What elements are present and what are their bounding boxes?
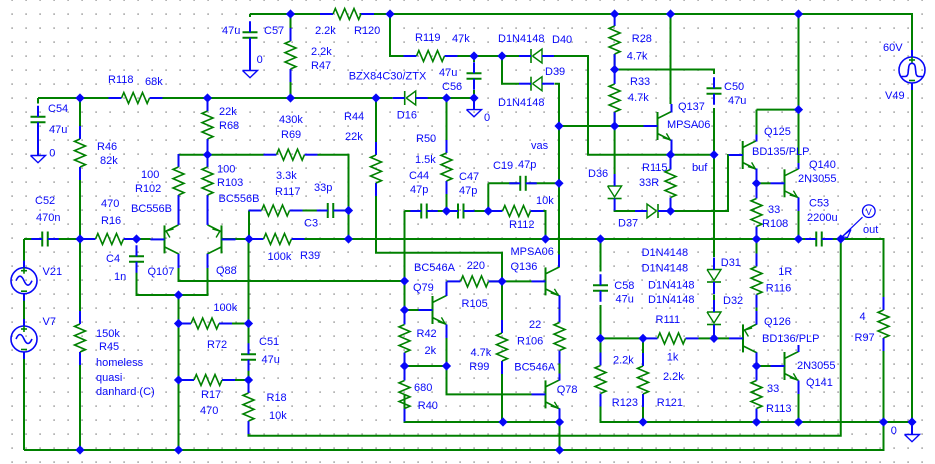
svg-text:Q88: Q88 [216,265,237,277]
transistor Q79 [413,262,456,338]
wire [292,238,817,240]
capacitor C4 [106,245,144,283]
wire [137,238,151,240]
svg-text:470: 470 [200,405,218,417]
resistor R117 [249,170,303,216]
junction [597,335,604,342]
svg-text:R116: R116 [766,282,791,294]
wire [614,126,616,174]
junction [386,10,393,17]
wire [37,98,39,104]
resistor R123 [595,353,638,410]
junction [287,10,294,17]
svg-text:2N3055: 2N3055 [797,360,836,372]
svg-text:D1N4148: D1N4148 [648,280,694,292]
wire [614,112,616,126]
transistor Q88 [208,206,237,277]
resistor R42 [399,312,437,366]
svg-text:V49: V49 [885,90,905,102]
wire [559,309,561,323]
resistor R99 [469,320,507,374]
svg-text:R105: R105 [462,298,488,310]
resistor R111 [645,314,699,364]
svg-text:R69: R69 [281,129,301,141]
svg-text:2.2k: 2.2k [311,46,332,58]
resistor R69 [264,114,318,160]
wire [466,210,488,212]
svg-text:4.7k: 4.7k [628,92,649,104]
wire [404,366,406,381]
svg-text:R97: R97 [855,332,875,344]
junction [639,418,646,425]
svg-text:homeless: homeless [96,357,144,369]
wire [124,238,151,240]
wire [457,55,531,57]
junction [611,10,618,17]
svg-text:R119: R119 [415,32,440,44]
junction [175,291,182,298]
capacitor C54 [31,103,69,136]
resistor R103 [202,154,259,208]
wire [756,227,758,240]
svg-text:C54: C54 [48,103,68,115]
wire [473,56,475,62]
zener diode D16 [349,71,428,122]
wire [446,194,448,211]
wire [222,238,264,240]
capacitor C44 [409,170,438,219]
svg-text:4.7k: 4.7k [627,50,648,62]
junction [372,94,379,101]
svg-text:47p: 47p [410,184,428,196]
svg-text:C51: C51 [259,336,279,348]
wire [405,395,560,423]
wire [757,182,771,184]
ground 0 (C54) [31,124,56,163]
wire [714,337,729,338]
svg-text:47p: 47p [459,185,477,197]
junction [133,235,140,242]
wire [601,337,645,339]
svg-text:C52: C52 [35,195,55,207]
wire [429,210,456,212]
wire [756,239,758,254]
svg-text:22: 22 [529,319,541,331]
svg-text:vas: vas [531,140,549,152]
junction [597,235,604,242]
svg-text:R102: R102 [135,183,161,195]
resistor R106 [517,310,565,364]
resistor R50 [415,133,452,194]
wire [179,154,264,156]
diode D31 [707,257,741,294]
junction [555,180,562,187]
junction [611,122,618,129]
capacitor C52 [31,195,60,247]
wire [302,210,327,212]
svg-text:R118: R118 [108,74,133,86]
junction [401,277,408,284]
wire [376,196,502,281]
svg-text:0: 0 [891,425,897,437]
svg-text:Q107: Q107 [148,266,175,278]
junction [556,418,563,425]
svg-text:1n: 1n [114,271,126,283]
junction [470,52,477,59]
svg-text:BD135/PLP: BD135/PLP [752,146,809,158]
junction [795,235,802,242]
junction [639,335,646,342]
diode D39 [498,66,565,109]
svg-text:D16: D16 [397,110,417,122]
wire [756,183,758,185]
wire [336,210,349,212]
wire [615,70,714,75]
svg-text:430k: 430k [279,114,303,126]
capacitor C19 [493,159,537,191]
ground 0 (C56) [467,98,491,124]
wire [360,14,913,51]
wire [487,183,489,211]
ground 0 (C57) [243,41,263,78]
svg-text:D32: D32 [723,295,743,307]
ground 0 (main) [891,424,920,442]
junction [245,376,252,383]
wire [51,238,96,240]
junction [443,207,450,214]
resistor R97 [855,297,890,351]
wire [543,211,546,239]
wire [558,126,560,255]
wire [79,180,81,239]
resistor R72 [178,302,238,351]
svg-text:33p: 33p [314,182,332,194]
junction [401,362,408,369]
wire [318,155,349,239]
diode D32 [707,295,743,337]
svg-text:C47: C47 [459,171,479,183]
wire [232,323,249,325]
svg-text:D1N4148: D1N4148 [498,97,544,109]
svg-text:4: 4 [860,311,866,323]
svg-text:R121: R121 [657,397,683,409]
wire [248,239,250,351]
transistor Q78 [514,362,577,423]
resistor R17 [181,375,235,418]
resistor R39 [251,234,321,264]
wire [405,210,419,212]
wire [179,323,192,325]
svg-text:Q78: Q78 [557,384,578,396]
wire [405,365,447,367]
transistor Q107 [148,206,179,278]
transistor Q126 [729,311,819,366]
wire [79,98,81,126]
labels D1N4148 group [642,247,695,306]
svg-text:C19: C19 [493,160,513,172]
junction [753,362,760,369]
junction [555,122,562,129]
wire [798,211,800,239]
node vas [531,140,549,152]
svg-text:out: out [863,224,878,236]
svg-text:R17: R17 [201,389,221,401]
svg-text:Q137: Q137 [678,101,705,113]
svg-text:R115: R115 [642,162,667,174]
resistor R102 [131,154,184,215]
wire [529,182,560,184]
junction [443,362,450,369]
resistor R47 [285,28,332,82]
wire [375,98,377,142]
svg-text:Q141: Q141 [806,377,833,389]
capacitor C51 [241,336,280,371]
wire [559,125,644,127]
wire [137,265,179,296]
svg-text:4.7k: 4.7k [471,347,492,359]
wire [822,239,884,297]
wire [179,254,405,282]
svg-text:33: 33 [768,204,780,216]
svg-text:R45: R45 [99,341,119,353]
svg-text:22k: 22k [219,106,237,118]
wire [23,294,25,327]
wire [150,97,393,99]
junction [76,94,83,101]
resistor R119 [404,32,471,62]
wire [79,365,81,450]
svg-text:BC556B: BC556B [219,193,260,205]
svg-text:82k: 82k [100,155,118,167]
svg-text:47k: 47k [452,33,470,45]
voltage source V21 [11,261,62,301]
svg-text:D39: D39 [545,66,565,78]
svg-text:R46: R46 [97,141,117,153]
wire [248,211,250,240]
svg-text:Q126: Q126 [764,316,791,328]
wire [390,14,404,56]
junction [753,180,760,187]
transistor Q125 [729,126,810,183]
junction [556,446,563,453]
wire [416,97,474,99]
resistor R18 [243,380,287,434]
wire [756,409,758,423]
svg-text:100k: 100k [268,251,292,263]
svg-text:3.3k: 3.3k [276,170,297,182]
svg-text:R103: R103 [217,177,243,189]
wire [713,108,715,155]
junction [287,94,294,101]
svg-text:BD136/PLP: BD136/PLP [762,333,819,345]
svg-text:100k: 100k [213,302,237,314]
wire [614,54,616,70]
wire [756,110,758,135]
wire [713,295,715,301]
svg-text:R33: R33 [630,76,650,88]
svg-text:C4: C4 [106,253,120,265]
wire [670,14,672,104]
junction [753,418,760,425]
wire [179,254,208,296]
svg-text:BC546A: BC546A [414,262,456,274]
svg-text:R99: R99 [469,361,489,373]
wire [543,56,715,155]
wire [447,366,532,394]
wire [911,90,913,423]
junction [204,151,211,158]
out probe [842,205,879,238]
svg-text:quasi: quasi [96,372,122,384]
svg-text:buf: buf [692,162,708,174]
junction [470,94,477,101]
svg-text:R47: R47 [311,60,331,72]
svg-text:C53: C53 [809,198,829,210]
svg-text:R50: R50 [416,133,436,145]
svg-text:D1N4148: D1N4148 [642,247,688,259]
wire [600,338,602,352]
junction [204,94,211,101]
svg-text:R112: R112 [509,219,534,231]
wire [501,281,503,320]
resistor R45 [75,311,121,365]
wire [502,56,519,84]
junction [795,10,802,17]
svg-text:D1N4148: D1N4148 [498,33,544,45]
wire [178,154,180,156]
svg-text:R44: R44 [344,111,364,123]
wire [404,211,406,325]
junction [611,66,618,73]
diode D37 [618,204,670,230]
transistor Q141 [771,345,836,394]
junction [710,335,717,342]
capacitor C58 [593,274,634,305]
wire [601,407,644,423]
junction [345,235,352,242]
svg-text:1R: 1R [778,266,792,278]
capacitor C57 [222,21,284,49]
junction [245,320,252,327]
wire [756,380,758,382]
svg-text:1k: 1k [667,352,679,364]
svg-text:470n: 470n [36,212,60,224]
svg-text:150k: 150k [96,328,120,340]
svg-text:Q136: Q136 [511,261,538,273]
resistor R28 [609,13,652,67]
svg-text:R16: R16 [101,215,121,227]
wire [670,155,743,211]
svg-text:BZX84C30/ZTX: BZX84C30/ZTX [349,71,427,83]
wire [502,280,532,282]
svg-text:2.2k: 2.2k [663,371,684,383]
resistor R113 [751,368,791,422]
resistor R115 [639,157,676,211]
junction [837,235,844,242]
junction [667,207,674,214]
svg-text:R72: R72 [207,339,227,351]
svg-text:R28: R28 [632,33,652,45]
wire [250,13,333,15]
svg-text:100: 100 [217,164,235,176]
transistor Q137 [644,101,711,155]
svg-text:BC546A: BC546A [514,362,556,374]
svg-text:BC556B: BC556B [131,203,172,215]
wire [248,363,250,380]
svg-text:0: 0 [484,112,490,124]
wire [757,109,799,111]
wire [642,407,644,422]
junction [667,10,674,17]
wire [38,97,122,99]
resistor R108 [751,186,788,240]
wire [290,82,292,98]
resistor R120 [315,9,380,38]
junction [485,207,492,214]
svg-text:Q79: Q79 [413,282,434,294]
wire [24,422,884,450]
svg-text:R68: R68 [219,120,239,132]
junction [795,418,802,425]
svg-text:R40: R40 [418,400,438,412]
svg-text:D1N4148: D1N4148 [648,294,694,306]
wire [249,14,251,17]
resistor R105 [448,260,502,310]
wire [249,239,841,436]
svg-text:2.2k: 2.2k [613,355,634,367]
svg-text:2.2k: 2.2k [315,25,336,37]
wire [446,338,448,366]
svg-text:D40: D40 [552,34,572,46]
svg-text:2N3055: 2N3055 [798,173,837,185]
resistor R118 [108,74,163,104]
capacitor C3 [304,182,344,230]
wire [883,350,885,422]
resistor R68 [202,98,239,152]
wire [555,84,560,255]
svg-text:0: 0 [257,54,263,66]
wire [405,309,419,311]
transistor Q136 [511,246,560,309]
junction [76,235,83,242]
svg-text:33: 33 [767,383,779,395]
resistor R112 [490,195,555,231]
svg-text:R106: R106 [517,336,543,348]
junction [908,418,915,425]
wire [23,239,25,261]
svg-text:10k: 10k [536,195,554,207]
svg-text:C44: C44 [409,170,429,182]
wire [798,14,800,163]
junction [76,446,83,453]
junction [710,151,717,158]
wire [473,90,475,98]
wire [488,182,517,184]
resistor R44 [344,111,382,196]
svg-text:C56: C56 [442,81,462,93]
wire [615,210,635,211]
svg-text:D1N4148: D1N4148 [642,263,688,275]
svg-text:22k: 22k [345,131,363,143]
capacitor C50 [707,77,747,107]
wire [756,366,758,368]
svg-text:danhard (C): danhard (C) [96,386,155,398]
svg-text:C58: C58 [614,280,634,292]
svg-text:60V: 60V [883,42,903,54]
junction [175,320,182,327]
svg-text:10k: 10k [269,410,287,422]
svg-text:V21: V21 [43,266,63,278]
